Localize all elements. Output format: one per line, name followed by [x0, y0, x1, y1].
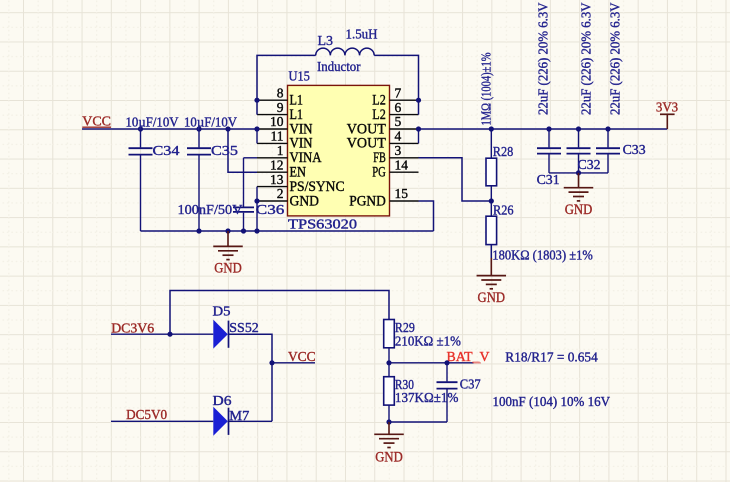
svg-text:D6: D6 — [213, 394, 232, 409]
svg-text:10: 10 — [270, 114, 284, 129]
node junction FB divider — [489, 198, 494, 203]
svg-text:C36: C36 — [256, 203, 284, 218]
ground symbol GND under IC — [213, 231, 243, 277]
wire EN to VCC rail — [228, 129, 257, 172]
resistor R26 — [486, 216, 497, 260]
svg-text:BAT_V: BAT_V — [447, 350, 490, 365]
pin 5 (VOUT) right — [347, 114, 419, 137]
svg-text:GND: GND — [565, 202, 593, 218]
svg-text:9: 9 — [277, 100, 284, 115]
svg-text:U15: U15 — [289, 70, 310, 85]
svg-text:11: 11 — [271, 129, 284, 144]
svg-text:PG: PG — [372, 165, 386, 181]
wire pins 13 and 2 to ground rail — [256, 187, 258, 231]
wire BAT_V net — [389, 362, 476, 364]
node junction EN vertical on VCC rail — [225, 126, 230, 131]
capacitor C36 — [233, 207, 254, 231]
svg-text:4: 4 — [395, 129, 402, 144]
pin 10 (VIN) left — [257, 114, 313, 137]
node junction pin 7 — [416, 98, 421, 103]
svg-text:GND: GND — [290, 193, 320, 209]
svg-text:210KΩ ±1%: 210KΩ ±1% — [395, 334, 461, 349]
svg-text:R28: R28 — [493, 145, 514, 160]
node junction BAT_V divider — [386, 360, 391, 365]
op-amp U15 TPS63020 IC body — [288, 85, 390, 216]
svg-text:3V3: 3V3 — [656, 100, 678, 115]
node junction pin 8 — [254, 98, 259, 103]
node junction VCC rail at pin10 — [254, 126, 259, 131]
wire D5 cathode to VCC node — [229, 334, 273, 421]
svg-text:C37: C37 — [460, 377, 481, 392]
node junction C34 on VCC rail — [138, 126, 143, 131]
svg-text:10µF/10V: 10µF/10V — [184, 115, 237, 130]
svg-text:GND: GND — [478, 290, 506, 306]
svg-text:22uF (226) 20% 6.3V: 22uF (226) 20% 6.3V — [579, 2, 594, 115]
capacitor C33 — [596, 129, 620, 173]
resistor R29 — [384, 320, 395, 377]
wire inductor left to pins 8,9 — [257, 55, 316, 114]
pin 8 (L1) left — [257, 85, 303, 108]
node junction pin2 vertical ground — [254, 228, 259, 233]
wire PGND pin15 to ground rail — [419, 201, 434, 231]
node junction C31 on VOUT rail — [546, 126, 551, 131]
pin 6 (L2) right — [372, 100, 418, 123]
svg-text:1MΩ (1004)±1%: 1MΩ (1004)±1% — [479, 53, 494, 126]
pin 3 (FB) right — [373, 143, 418, 166]
svg-text:PGND: PGND — [349, 193, 386, 209]
wire D6 cathode — [229, 420, 273, 422]
pin 1 (VINA) left — [257, 143, 322, 166]
node junction R28 on VOUT rail — [489, 126, 494, 131]
wire FB pin3 to divider — [419, 158, 492, 201]
ground symbol GND below R26 — [477, 258, 507, 306]
wire inductor right to pins 7,6 — [374, 55, 418, 114]
svg-text:22uF (226) 20% 6.3V: 22uF (226) 20% 6.3V — [535, 2, 550, 115]
ground symbol GND below R30 — [374, 422, 404, 466]
svg-text:137KΩ±1%: 137KΩ±1% — [395, 391, 459, 406]
wire output caps bottom link — [549, 172, 608, 174]
node junction pin 2 GND — [254, 198, 259, 203]
svg-text:Inductor: Inductor — [317, 60, 361, 75]
pin 7 (L2) right — [372, 85, 418, 108]
node junction C35 ground — [196, 228, 201, 233]
wire battery sense top run — [170, 291, 389, 335]
svg-text:100nF/50V: 100nF/50V — [178, 203, 243, 218]
ground symbol GND below C32 — [564, 173, 594, 218]
svg-text:180KΩ (1803) ±1%: 180KΩ (1803) ±1% — [492, 248, 593, 263]
resistor R30 — [384, 377, 395, 422]
node junction C37 on BAT_V — [444, 360, 449, 365]
capacitor C31 — [537, 129, 561, 173]
svg-text:GND: GND — [214, 261, 242, 277]
node junction C32 on VOUT rail — [576, 126, 581, 131]
svg-text:C31: C31 — [537, 173, 560, 188]
capacitor C35 — [187, 129, 211, 231]
pin 2 (GND) left — [257, 186, 319, 209]
svg-text:6: 6 — [395, 100, 402, 115]
svg-text:C32: C32 — [578, 158, 601, 173]
pin 13 (PS/SYNC) left — [257, 172, 345, 195]
node junction VOUT pins — [416, 126, 421, 131]
wire VOUT rail to 3V3 — [419, 128, 668, 130]
wire DC5V0 to D6 anode — [111, 420, 213, 422]
svg-text:C35: C35 — [211, 144, 238, 159]
wire DC3V6 to D5 anode — [111, 333, 213, 335]
svg-text:C33: C33 — [623, 143, 646, 158]
svg-text:10µF/10V: 10µF/10V — [126, 115, 179, 130]
svg-text:5: 5 — [395, 114, 402, 129]
pin 9 (L1) left — [257, 100, 303, 123]
node junction ground symbol — [225, 228, 230, 233]
svg-text:R26: R26 — [493, 203, 514, 218]
capacitor C37 — [389, 363, 458, 422]
diode D6 — [213, 407, 228, 436]
node junction C36 ground — [241, 228, 246, 233]
inductor L3 — [316, 48, 374, 55]
wire VCC rail to VIN — [82, 128, 257, 130]
resistor R28 — [486, 129, 497, 216]
node junction C35 on VCC rail — [196, 126, 201, 131]
pin 14 (PG) right — [372, 157, 418, 180]
capacitor C32 — [567, 129, 591, 173]
wire VCC rail junction to pin 11 — [256, 129, 258, 143]
pin 15 (PGND) right — [349, 186, 418, 209]
wire VCC stub — [272, 362, 315, 364]
svg-text:8: 8 — [277, 85, 284, 100]
svg-text:3: 3 — [395, 143, 402, 158]
svg-text:12: 12 — [270, 157, 284, 172]
wire ground rail under IC — [141, 230, 434, 232]
capacitor C34 — [129, 129, 153, 231]
node junction DC3V6 tap — [167, 332, 172, 337]
svg-text:1: 1 — [277, 143, 284, 158]
svg-text:D5: D5 — [213, 305, 231, 320]
pin 11 (VIN) left — [257, 129, 313, 152]
net label BAT_V — [447, 350, 490, 365]
power port VCC top-left — [82, 115, 111, 130]
svg-text:GND: GND — [375, 450, 403, 466]
pin 12 (EN) left — [257, 157, 306, 180]
node junction output caps ground — [576, 170, 581, 175]
wire VINA pin1 to C36 — [244, 158, 258, 207]
power port 3V3 — [656, 100, 678, 129]
svg-text:22uF (226) 20% 6.3V: 22uF (226) 20% 6.3V — [608, 2, 623, 115]
diode D5 — [213, 320, 228, 349]
svg-text:2: 2 — [277, 186, 284, 201]
svg-text:13: 13 — [270, 172, 284, 187]
svg-text:TPS63020: TPS63020 — [288, 218, 357, 233]
wire VOUT rail to pin 4 — [418, 129, 420, 143]
node junction C33 on VOUT rail — [605, 126, 610, 131]
svg-text:R18/R17 = 0.654: R18/R17 = 0.654 — [505, 351, 598, 366]
svg-text:7: 7 — [395, 85, 402, 100]
svg-text:L3: L3 — [318, 34, 334, 49]
node junction diode cathodes VCC — [269, 360, 274, 365]
svg-text:C34: C34 — [153, 144, 180, 159]
svg-text:1.5uH: 1.5uH — [346, 28, 378, 43]
svg-text:100nF (104) 10% 16V: 100nF (104) 10% 16V — [493, 395, 611, 410]
node junction R30 C37 ground — [386, 419, 391, 424]
pin 4 (VOUT) right — [347, 129, 419, 152]
svg-text:14: 14 — [395, 157, 409, 172]
svg-text:15: 15 — [395, 186, 409, 201]
